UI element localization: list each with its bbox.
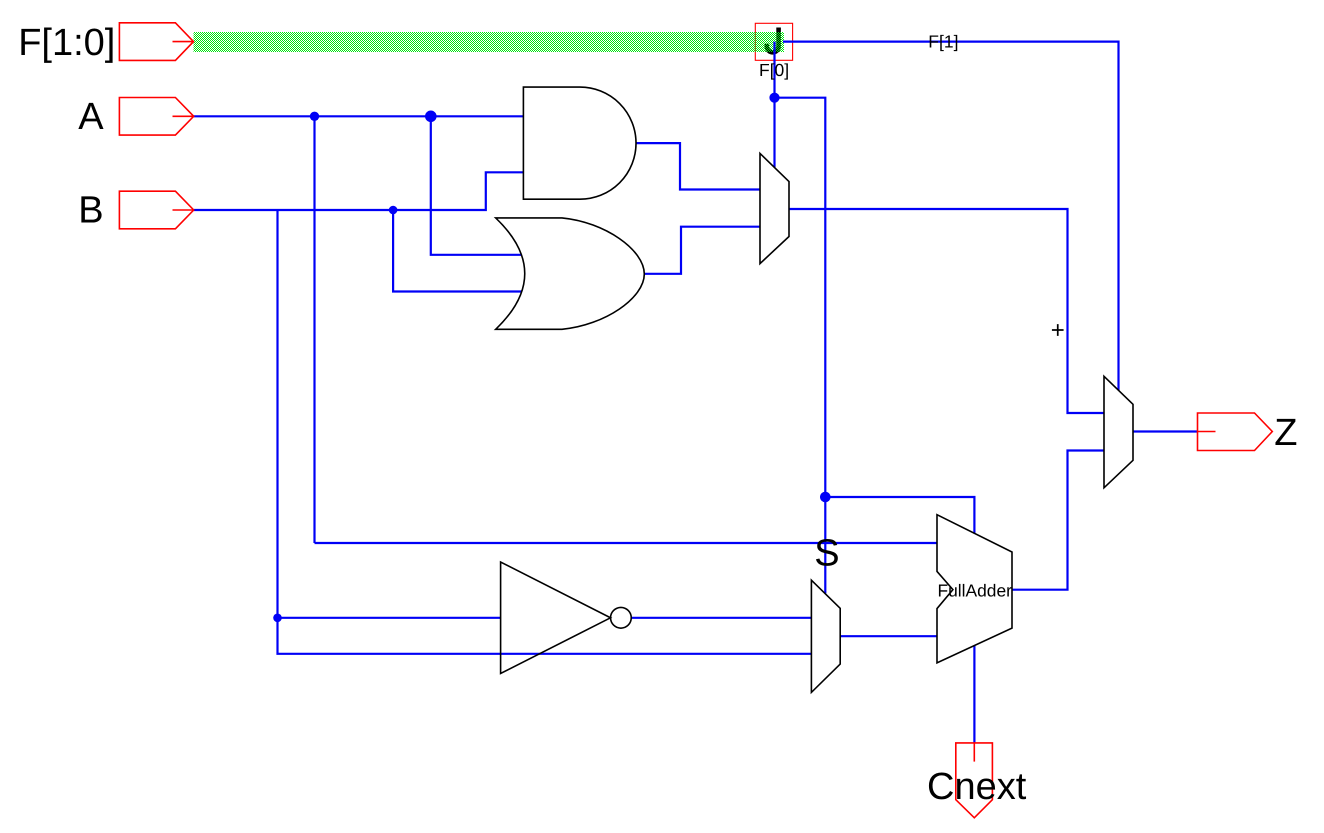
wire F[0] splitter down to mux U3 select	[773, 42, 775, 168]
FullAdder U2 body	[937, 515, 1012, 663]
svg-text:FullAdder: FullAdder	[938, 581, 1013, 601]
splitter U1 J symbol	[767, 28, 779, 53]
wire FullAdder carry out to Cnext port	[973, 646, 975, 743]
svg-text:B: B	[78, 190, 103, 232]
junction on A at OR branch	[425, 111, 437, 123]
wire OR output to mux U3 input 2	[644, 227, 760, 274]
wire mux U3 output to mux U4 input 1	[789, 209, 1104, 413]
output port Z	[1198, 413, 1273, 451]
AND gate G1	[523, 87, 636, 199]
wire A riser to OR gate input 1	[431, 116, 522, 255]
mux U3	[760, 153, 789, 263]
wire FullAdder sum output to mux U4 input 2	[1012, 451, 1104, 590]
mux U5	[811, 580, 840, 692]
wire F[0] branch to FullAdder carry-in	[825, 497, 974, 534]
svg-text:F[0]: F[0]	[759, 60, 789, 80]
wire mux U4 output to Z port	[1133, 430, 1198, 432]
OR gate G2	[496, 218, 645, 329]
input port A	[119, 98, 193, 136]
junction on F[0] net top	[769, 93, 779, 103]
junction on B at OR branch	[389, 206, 398, 215]
wire B from port to AND gate input 2	[194, 172, 524, 210]
wire B riser to OR gate input 2	[393, 210, 522, 292]
wire S to FullAdder input 1	[315, 542, 938, 544]
NOT gate G3 bubble	[611, 607, 632, 628]
bus F[1:0]	[194, 32, 785, 52]
svg-text:F[1:0]: F[1:0]	[18, 22, 115, 64]
wire F[0] branch right and long drop	[775, 98, 826, 594]
wire NOT output to mux U5 input 1	[631, 617, 811, 619]
svg-text:S: S	[814, 532, 839, 574]
NOT gate G3 triangle	[501, 562, 611, 674]
wire B riser to NOT gate input	[278, 210, 501, 618]
mux U4	[1104, 376, 1133, 488]
wire A riser to S line	[313, 116, 315, 543]
junction on A at AND branch	[310, 112, 319, 121]
svg-text:F[1]: F[1]	[928, 32, 958, 52]
wire AND output to mux U3 input 1	[636, 143, 760, 189]
svg-text:A: A	[78, 96, 104, 138]
output port Cnext	[956, 743, 993, 818]
svg-text:+: +	[1051, 317, 1065, 344]
junction on F[0] net at FullAdder branch	[820, 492, 831, 503]
svg-text:Cnext: Cnext	[927, 766, 1027, 808]
wire mux U5 output to FullAdder input 2	[840, 635, 937, 637]
input port F[1:0]	[119, 23, 193, 61]
wire B to mux U5 input 2	[278, 618, 812, 654]
splitter U1 red box	[755, 23, 792, 60]
junction on B at NOT input	[273, 614, 282, 623]
svg-text:Z: Z	[1274, 412, 1297, 454]
wire A from port to AND gate input 1	[194, 115, 524, 117]
input port B	[119, 191, 193, 229]
wire F[1] from splitter to mux U4 select	[783, 42, 1119, 391]
